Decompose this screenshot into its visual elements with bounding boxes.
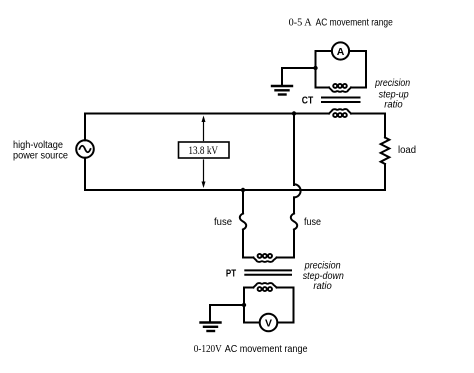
svg-text:fuse: fuse (214, 217, 232, 228)
wire left side (source branch) (84, 114, 86, 191)
svg-text:ratio: ratio (313, 281, 332, 292)
wire right fuse lead middle (293, 197, 295, 213)
PT core (245, 270, 291, 274)
node D junction voltmeter loop to ground lead (242, 303, 246, 307)
svg-text:AC movement range: AC movement range (225, 344, 308, 355)
svg-text:A: A (337, 46, 345, 58)
CT core (322, 98, 360, 103)
PT secondary winding (253, 283, 276, 291)
svg-text:AC movement range: AC movement range (316, 17, 394, 28)
svg-text:13.8 kV: 13.8 kV (188, 145, 218, 157)
wire right fuse lead lower (277, 230, 294, 258)
node C junction ammeter loop to ground lead (313, 66, 317, 70)
node A junction top conductor to right fuse lead (292, 111, 296, 115)
annotation arrow down (202, 160, 206, 188)
ammeter A (332, 42, 349, 59)
node B junction bottom conductor to left fuse lead (241, 188, 245, 192)
wire left fuse lead lower (243, 230, 253, 258)
load resistor (381, 138, 390, 164)
wire ground lead PT (210, 305, 244, 322)
CT secondary winding (329, 84, 351, 92)
svg-text:CT: CT (302, 95, 313, 106)
wire ammeter loop rectangle (316, 51, 367, 88)
wire bottom conductor (85, 189, 385, 191)
wire right fuse lead upper (293, 114, 295, 186)
wire ground lead CT (282, 68, 316, 85)
ground PT circuit (201, 323, 221, 332)
svg-text:PT: PT (226, 268, 236, 279)
svg-text:fuse: fuse (304, 217, 321, 228)
voltmeter V (260, 314, 278, 332)
CT primary winding (329, 109, 351, 117)
wire crossover hop over bottom conductor (294, 184, 301, 197)
svg-text:power source: power source (13, 151, 68, 162)
svg-text:0-5 A: 0-5 A (289, 16, 312, 28)
svg-text:V: V (265, 317, 272, 329)
wire voltmeter loop rectangle (244, 288, 294, 323)
fuse right (291, 214, 297, 230)
wire top conductor left segment (85, 113, 329, 115)
wire left fuse lead upper (242, 190, 244, 214)
svg-text:load: load (398, 145, 416, 156)
wire right side (load branch) (384, 114, 386, 191)
svg-text:0-120V: 0-120V (194, 343, 222, 355)
svg-text:precision: precision (374, 78, 410, 89)
annotation 13.8 kV box (179, 142, 230, 158)
voltage source high-voltage power source (76, 140, 94, 158)
PT primary winding (253, 254, 276, 262)
wire top conductor right segment (351, 113, 385, 115)
svg-text:precision: precision (304, 260, 341, 271)
svg-text:ratio: ratio (384, 100, 403, 111)
annotation arrow up (202, 116, 206, 141)
fuse left (240, 214, 246, 230)
svg-text:high-voltage: high-voltage (13, 140, 63, 151)
ground CT circuit (272, 86, 292, 95)
